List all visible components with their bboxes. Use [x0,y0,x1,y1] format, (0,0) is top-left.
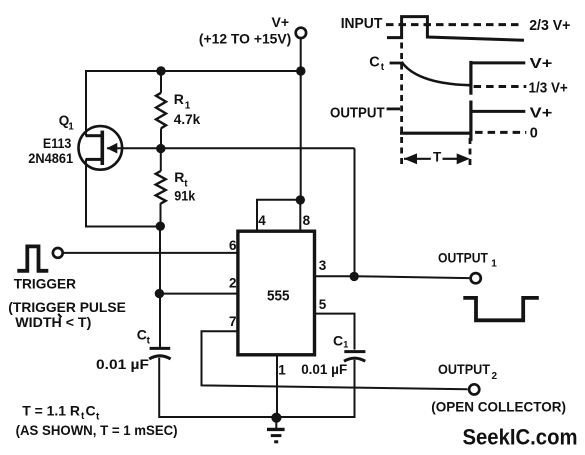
svg-text:0.01 µF: 0.01 µF [96,356,149,372]
svg-text:WIDTH < T): WIDTH < T) [15,314,91,330]
svg-text:V+: V+ [530,106,553,122]
svg-text:1: 1 [491,259,497,270]
svg-text:TRIGGER: TRIGGER [14,276,76,292]
svg-text:C: C [333,332,343,348]
svg-text:2/3 V+: 2/3 V+ [529,18,570,34]
svg-text:7: 7 [229,314,237,329]
svg-text:SeekIC.com: SeekIC.com [463,424,578,449]
svg-text:1: 1 [278,363,286,378]
svg-text:4.7k: 4.7k [174,111,201,127]
svg-text:3: 3 [319,258,327,273]
svg-text:(+12 TO +15V): (+12 TO +15V) [199,31,291,47]
svg-text:T = 1.1 R: T = 1.1 R [22,403,80,419]
svg-text:8: 8 [303,213,311,228]
svg-text:2: 2 [492,371,498,382]
svg-text:(TRIGGER PULSE: (TRIGGER PULSE [8,299,126,315]
svg-text:1/3 V+: 1/3 V+ [529,80,568,96]
svg-text:1: 1 [343,340,348,350]
svg-text:R: R [174,169,184,185]
svg-text:C: C [86,403,96,419]
svg-text:R: R [174,91,184,107]
svg-text:0: 0 [530,125,538,141]
svg-text:(AS SHOWN, T = 1 mSEC): (AS SHOWN, T = 1 mSEC) [16,422,178,438]
svg-text:OUTPUT: OUTPUT [438,250,488,266]
svg-text:2: 2 [229,276,237,291]
svg-text:V+: V+ [530,56,553,72]
svg-text:(OPEN COLLECTOR): (OPEN COLLECTOR) [431,399,566,415]
svg-text:OUTPUT: OUTPUT [330,105,385,121]
svg-text:T: T [433,149,442,164]
svg-text:5: 5 [319,297,327,312]
svg-text:C: C [369,54,380,70]
svg-text:V+: V+ [272,14,290,30]
svg-text:INPUT: INPUT [341,16,383,32]
svg-text:C: C [137,327,147,343]
svg-text:2N4861: 2N4861 [28,151,73,166]
svg-text:6: 6 [229,238,237,253]
svg-text:1: 1 [68,122,74,133]
svg-text:OUTPUT: OUTPUT [438,361,490,377]
svg-text:0.01 µF: 0.01 µF [301,361,347,377]
svg-text:E113: E113 [43,136,72,151]
svg-text:555: 555 [267,288,290,304]
svg-text:91k: 91k [174,188,195,204]
svg-text:1: 1 [185,101,191,112]
svg-text:4: 4 [258,213,266,228]
